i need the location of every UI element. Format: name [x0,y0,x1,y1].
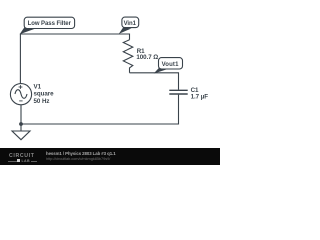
svg-text:Vin1: Vin1 [124,21,137,27]
svg-text:1.7 µF: 1.7 µF [191,94,209,101]
svg-text:Low Pass Filter: Low Pass Filter [28,21,72,27]
svg-text:100.7 Ω: 100.7 Ω [136,54,158,61]
svg-text:50 Hz: 50 Hz [34,98,50,105]
svg-text:V1: V1 [34,83,42,90]
svg-text:square: square [34,91,55,98]
svg-text:Vout1: Vout1 [162,62,179,68]
